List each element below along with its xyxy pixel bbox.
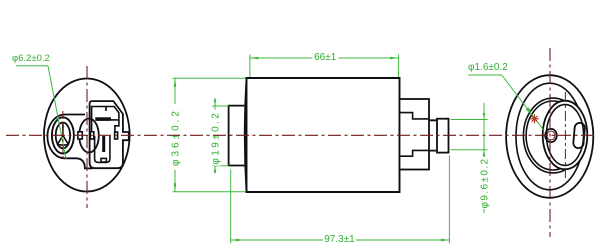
dim 97.3 line <box>231 239 450 241</box>
label phi1.6 leader <box>502 75 544 131</box>
nozzle neck <box>429 120 437 150</box>
label phi6.2 leader <box>48 66 66 159</box>
port inner circle <box>56 122 70 148</box>
dim 66 ext lines <box>249 55 251 78</box>
dim phi9.6 line <box>483 103 485 213</box>
right view vertical centerline <box>549 48 551 237</box>
main horizontal centerline <box>6 134 594 136</box>
inlet hole outer <box>545 129 557 142</box>
svg-text:φ6.2±0.2: φ6.2±0.2 <box>12 53 50 64</box>
dim phi9.6 ext lines <box>451 119 488 121</box>
hole position X marker <box>530 114 539 123</box>
dim 97.3 ext lines <box>230 170 232 244</box>
svg-text:66±1: 66±1 <box>314 52 337 63</box>
port outer circle <box>52 117 74 153</box>
svg-text:97.3±1: 97.3±1 <box>324 234 355 245</box>
left view outer ellipse <box>44 79 130 192</box>
dim 97.3 text <box>323 232 356 245</box>
recess circle (covers boss) <box>543 101 588 170</box>
right view outer ellipse <box>506 75 593 198</box>
dim phi9.6 text <box>477 157 490 209</box>
label phi6.2 underline <box>16 65 48 67</box>
connector vertical terminal slot <box>102 136 105 152</box>
boss outer arc around inlet hole <box>523 98 582 173</box>
slot in recess <box>573 122 585 148</box>
dim 66 text <box>313 50 339 62</box>
main body phi36 <box>247 78 400 192</box>
port stadium housing <box>47 115 93 169</box>
svg-text:φ1.6±0.2: φ1.6±0.2 <box>468 62 508 73</box>
connector housing outline <box>90 101 129 168</box>
port spokes <box>57 123 68 145</box>
dim phi19 ext lines <box>212 105 229 107</box>
slot extension line <box>111 119 119 121</box>
dim phi19 text <box>208 110 221 166</box>
connector right ear <box>115 132 118 139</box>
connector top key notch <box>105 107 107 112</box>
inlet hole red circle <box>547 131 555 140</box>
left view vertical centerline <box>86 66 88 208</box>
label phi1.6 underline <box>468 74 501 76</box>
dim 66 line <box>250 57 399 59</box>
port vertical centerline <box>62 111 64 161</box>
dim phi36 text <box>168 104 181 170</box>
dim phi19 line <box>214 98 216 174</box>
svg-text:φ36±0.2: φ36±0.2 <box>171 108 182 166</box>
boss inner arc <box>526 101 580 170</box>
inlet step cylinder phi19 <box>229 106 247 166</box>
recess inner ring <box>546 105 583 166</box>
connector left terminal ear <box>90 132 93 139</box>
connector horizontal terminal slot <box>95 117 111 121</box>
mid circle boss <box>79 119 99 153</box>
dim phi36 ext lines <box>173 77 246 79</box>
connector inner wall <box>92 107 119 132</box>
recess vertical centerline <box>564 92 566 178</box>
nozzle barb <box>437 119 449 153</box>
dim phi36 line <box>174 78 176 192</box>
svg-text:φ9.6±0.2: φ9.6±0.2 <box>479 158 490 209</box>
outlet cap <box>400 99 430 170</box>
body left crimp arc <box>245 78 247 192</box>
cap inner step top <box>400 113 430 119</box>
cap inner step bottom <box>400 150 430 156</box>
right view inner rim ellipse <box>516 83 583 190</box>
svg-text:φ19±0.2: φ19±0.2 <box>211 111 222 165</box>
ear tab between port and mid circle <box>78 132 82 139</box>
vertical slot foot <box>101 158 106 162</box>
connector inner U channel <box>95 136 110 163</box>
